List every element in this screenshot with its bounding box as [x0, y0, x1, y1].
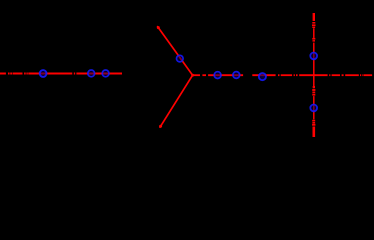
tick marks T1 below bus bar B1	[312, 22, 316, 28]
arrowhead tip of wire W3	[159, 125, 162, 128]
tick marks T3 on vertical net	[312, 86, 315, 96]
node N9 ring on wire W5	[310, 105, 317, 112]
node J1 Y junction point	[191, 74, 194, 77]
wire W2 upper diagonal branch of Y junction	[158, 27, 193, 76]
tick marks T2 on vertical net	[312, 38, 315, 42]
node N3 ring on wire W1	[102, 70, 109, 77]
node N1 ring on wire W1	[40, 70, 47, 77]
arrowhead tip of wire W2	[157, 26, 160, 29]
node N4 ring on wire W2	[177, 55, 184, 62]
node N2 ring on wire W1	[88, 70, 95, 77]
wire W5 vertical net	[313, 28, 315, 119]
bus bar B1 top of vertical net	[313, 13, 315, 21]
wire W4 right horizontal net (dashed segments)	[193, 74, 373, 76]
wire W3 lower diagonal branch of Y junction	[160, 75, 193, 127]
tick marks T4 on vertical net	[312, 120, 315, 126]
node N7 ring on wire W4	[259, 73, 266, 80]
node N8 ring on wire W5	[310, 53, 317, 60]
wire W1 left horizontal net (dashed segments)	[0, 73, 122, 75]
bus bar B2 bottom of vertical net	[313, 127, 316, 138]
node N5 ring on wire W4	[214, 72, 221, 79]
node N6 ring on wire W4	[233, 72, 240, 79]
